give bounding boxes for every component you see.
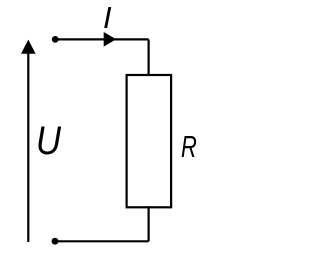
voltage arrow head (up) for U: [21, 40, 36, 54]
wire: voltage arrow shaft (left vertical line): [27, 48, 29, 242]
resistor R1 body: [127, 75, 172, 207]
wire: right vertical from top corner to resistor top: [148, 39, 150, 76]
wire: bottom horizontal from corner to node B: [55, 240, 149, 242]
svg-text:R: R: [181, 129, 197, 163]
wire: top horizontal from node A to corner: [55, 38, 148, 40]
current arrow head (right) for I: [104, 32, 117, 47]
node A (top terminal dot): [52, 36, 59, 43]
svg-text:I: I: [103, 0, 112, 35]
svg-text:U: U: [36, 118, 62, 163]
wire: right vertical from resistor bottom to bottom corner: [148, 206, 150, 241]
node B (bottom terminal dot): [52, 238, 59, 245]
